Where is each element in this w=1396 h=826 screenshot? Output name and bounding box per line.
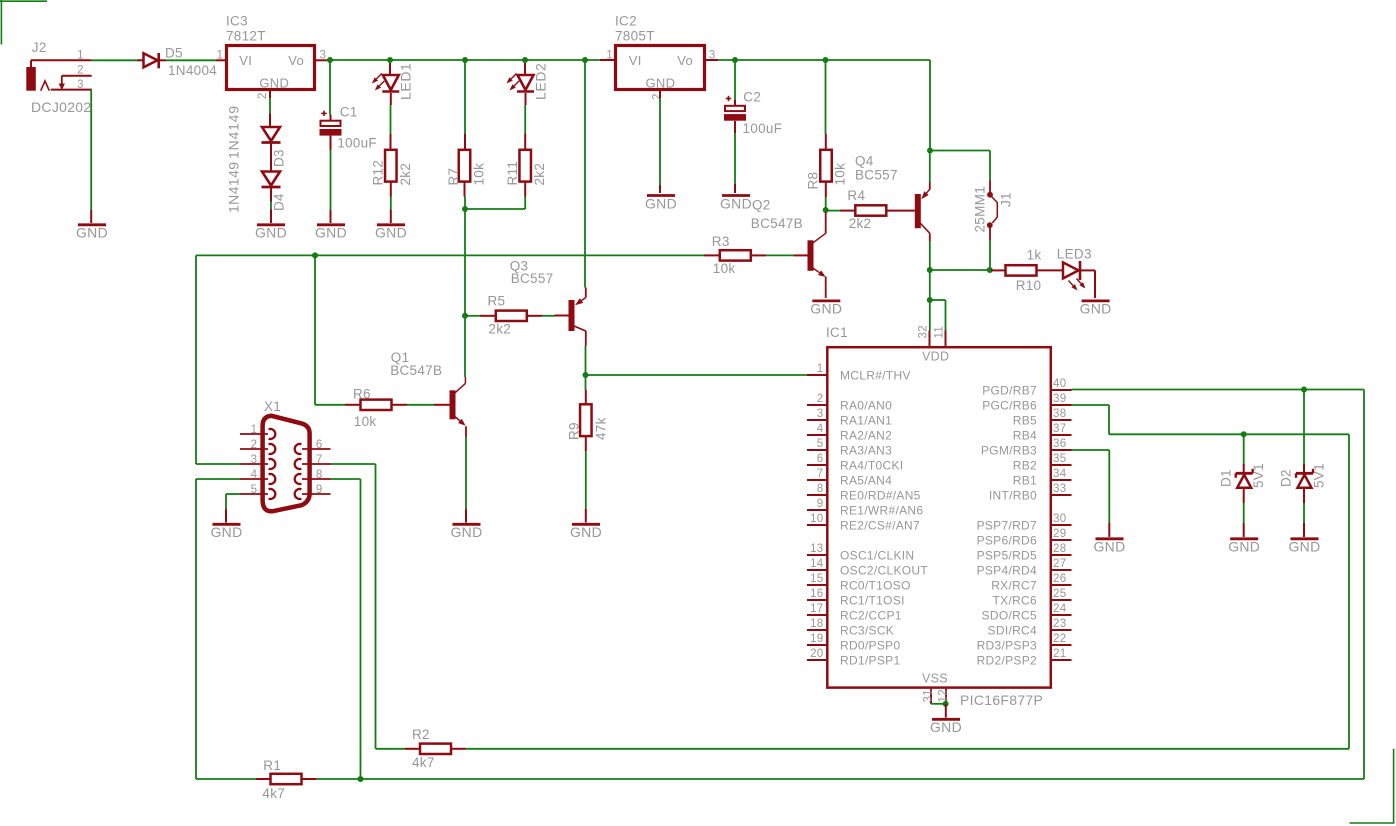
- wire R9 to GND: [585, 436, 587, 522]
- label Q4: [855, 154, 874, 169]
- ground GND (LED3): [1080, 300, 1112, 316]
- diode D3: [262, 114, 281, 158]
- X1 pin 5: [240, 484, 268, 496]
- svg-text:2k2: 2k2: [488, 322, 511, 337]
- label LED1: [398, 63, 414, 100]
- svg-text:14: 14: [810, 558, 824, 570]
- svg-text:IC1: IC1: [826, 325, 848, 340]
- regulator IC3 7812T: [216, 46, 326, 100]
- svg-text:100uF: 100uF: [743, 121, 783, 136]
- svg-text:OSC1/CLKIN: OSC1/CLKIN: [840, 548, 914, 562]
- svg-text:28: 28: [1053, 543, 1066, 555]
- svg-text:GND: GND: [315, 224, 347, 240]
- wire R5 to Q3 base: [527, 315, 569, 317]
- connector X1 DB9: [263, 416, 310, 512]
- label IC1: [826, 325, 848, 340]
- svg-text:RA0/AN0: RA0/AN0: [840, 398, 892, 412]
- svg-text:1: 1: [217, 49, 224, 61]
- svg-text:RA5/AN4: RA5/AN4: [840, 473, 892, 487]
- svg-text:PSP4/RD4: PSP4/RD4: [977, 563, 1037, 577]
- wire junction to R9: [585, 375, 587, 404]
- svg-text:RD1/PSP1: RD1/PSP1: [840, 653, 900, 667]
- IC1 pin 13 OSC1/CLKIN: [807, 543, 914, 562]
- label 7812T: [226, 29, 266, 44]
- svg-text:19: 19: [810, 633, 823, 645]
- IC1 pin 8 RE0/RD#/AN5: [807, 483, 921, 502]
- svg-text:1N4149: 1N4149: [226, 162, 242, 213]
- svg-text:DCJ0202: DCJ0202: [31, 99, 91, 115]
- zener diode D2: [1296, 469, 1313, 488]
- svg-text:OSC2/CLKOUT: OSC2/CLKOUT: [840, 563, 928, 577]
- svg-text:Vo: Vo: [677, 53, 693, 68]
- svg-text:2: 2: [251, 439, 258, 451]
- svg-text:2k2: 2k2: [398, 163, 413, 186]
- svg-text:PGD/RB7: PGD/RB7: [982, 383, 1037, 397]
- resistor R10: [1006, 265, 1037, 275]
- wire IC3 GND to D3: [269, 98, 271, 114]
- label R12: [371, 160, 386, 186]
- label D4: [272, 193, 287, 211]
- label R4: [847, 188, 865, 203]
- svg-text:GND: GND: [259, 75, 289, 90]
- label 4k7 (R2): [412, 755, 435, 770]
- IC1 pin 18 RC3/SCK: [807, 618, 894, 637]
- resistor R5: [496, 311, 527, 321]
- wire D1 to GND: [1243, 488, 1245, 537]
- svg-text:20: 20: [810, 648, 823, 660]
- IC1 pin 24 SDO/RC5: [982, 603, 1072, 622]
- label VSS: [922, 671, 948, 685]
- IC1 pin 25 TX/RC6: [993, 588, 1072, 607]
- node R7-R11 junction: [462, 206, 468, 212]
- svg-text:RB4: RB4: [1013, 428, 1037, 442]
- node D2 junction: [1301, 387, 1307, 393]
- node LED2 junction: [522, 57, 528, 63]
- svg-text:3: 3: [77, 79, 84, 91]
- label 5V1 (D1): [1251, 463, 1266, 488]
- svg-text:Q4: Q4: [855, 154, 874, 169]
- IC1 pin 38 RB5: [1013, 408, 1072, 427]
- label R5: [488, 294, 506, 309]
- capacitor C1: [320, 111, 342, 136]
- svg-text:PIC16F877P: PIC16F877P: [960, 692, 1043, 708]
- svg-text:SDO/RC5: SDO/RC5: [982, 608, 1037, 622]
- X1 pin 6: [302, 439, 331, 451]
- svg-text:Vo: Vo: [288, 53, 304, 68]
- wire LED3 to GND: [1080, 270, 1095, 298]
- svg-text:PGM/RB3: PGM/RB3: [981, 443, 1037, 457]
- IC1 pin 39 PGC/RB6: [982, 393, 1071, 412]
- svg-text:4: 4: [251, 469, 258, 481]
- ground GND (D2): [1288, 538, 1320, 554]
- wire X1 pin5 to GND: [226, 494, 240, 523]
- svg-text:BC557: BC557: [511, 271, 554, 286]
- svg-text:8: 8: [316, 469, 323, 481]
- svg-text:2: 2: [817, 393, 824, 405]
- wire LED1 to R12: [390, 105, 392, 150]
- wire IC2 GND: [659, 98, 661, 193]
- svg-text:38: 38: [1053, 408, 1066, 420]
- label C1: [340, 104, 358, 119]
- label 7805T: [615, 29, 655, 44]
- svg-text:J1: J1: [999, 192, 1014, 207]
- svg-text:R6: R6: [353, 386, 371, 401]
- resistor R12: [385, 150, 397, 182]
- svg-text:4: 4: [817, 423, 824, 435]
- wire R4 to Q4 base: [886, 210, 915, 212]
- J2 pin 3: [51, 79, 92, 91]
- svg-text:PSP7/RD7: PSP7/RD7: [977, 518, 1037, 532]
- svg-text:25MM1: 25MM1: [973, 186, 988, 233]
- svg-text:GND: GND: [1080, 300, 1112, 316]
- resistor R1: [196, 774, 317, 784]
- IC1 pin 29 PSP6/RD6: [977, 528, 1072, 547]
- label IC2: [615, 14, 637, 29]
- svg-text:1: 1: [606, 49, 613, 61]
- label 100uF (C1): [337, 136, 377, 151]
- label 10k (R3): [713, 261, 736, 276]
- wire +5V rail: [706, 60, 930, 150]
- resistor R9: [580, 404, 592, 436]
- IC1 pin 9 RE1/WR#/AN6: [807, 498, 923, 517]
- label Q3: [510, 259, 529, 274]
- svg-text:RA2/AN2: RA2/AN2: [840, 428, 892, 442]
- wire down to VDD: [929, 270, 931, 299]
- IC1 pin 19 RD0/PSP0: [807, 633, 900, 652]
- svg-text:RC1/T1OSI: RC1/T1OSI: [840, 593, 905, 607]
- IC1 pin 14 OSC2/CLKOUT: [807, 558, 928, 577]
- svg-text:GND: GND: [1228, 538, 1260, 554]
- wire C1 to GND: [330, 136, 332, 223]
- svg-text:J2: J2: [32, 40, 47, 55]
- IC1 pin 26 RX/RC7: [991, 573, 1071, 592]
- resistor R6: [361, 400, 392, 410]
- svg-text:9: 9: [817, 498, 824, 510]
- diode D5: [137, 53, 166, 68]
- svg-text:R2: R2: [412, 727, 430, 742]
- wire R8 down: [825, 182, 827, 208]
- label BC547B (Q1): [390, 363, 442, 378]
- svg-text:1: 1: [817, 363, 824, 375]
- ground GND (Q1): [450, 524, 482, 540]
- label 10k (R8): [833, 163, 848, 186]
- IC1 pin 21 RD2/PSP2: [977, 648, 1072, 667]
- wire X1 pin7: [331, 464, 406, 749]
- zener diode D1: [1236, 469, 1253, 488]
- svg-text:RD2/PSP2: RD2/PSP2: [977, 653, 1037, 667]
- resistor R4: [855, 205, 886, 215]
- wire Q3 collector down: [585, 331, 587, 374]
- node VSS junction: [943, 701, 949, 707]
- label Q1: [391, 350, 410, 365]
- svg-text:RB5: RB5: [1013, 413, 1037, 427]
- wire junction to R10: [991, 269, 1006, 271]
- svg-text:10k: 10k: [833, 163, 848, 186]
- svg-text:23: 23: [1053, 618, 1066, 630]
- svg-text:10: 10: [810, 513, 823, 525]
- svg-text:C1: C1: [340, 104, 358, 119]
- svg-text:5V1: 5V1: [1251, 463, 1266, 488]
- label C2: [743, 90, 761, 105]
- IC1 pin 15 RC0/T1OSO: [807, 573, 911, 592]
- svg-text:24: 24: [1053, 603, 1067, 615]
- svg-text:D5: D5: [165, 46, 183, 61]
- wire J1 bottom: [989, 228, 991, 268]
- svg-text:2k2: 2k2: [532, 163, 547, 186]
- IC U1 PIC16F877P box: [827, 347, 1051, 687]
- svg-text:10k: 10k: [713, 261, 736, 276]
- svg-text:LED1: LED1: [398, 63, 414, 100]
- svg-text:VI: VI: [239, 53, 252, 68]
- wire R6 vertical: [315, 255, 360, 404]
- svg-text:C2: C2: [743, 90, 761, 105]
- svg-text:8: 8: [817, 483, 824, 495]
- IC1 pin 27 PSP4/RD4: [977, 558, 1072, 577]
- svg-text:47k: 47k: [594, 417, 609, 440]
- node base-line junction: [312, 252, 318, 258]
- wire Q4 emitter up: [929, 152, 931, 190]
- IC1 pin 17 RC2/CCP1: [807, 603, 902, 622]
- wire IC3 out: [316, 59, 327, 61]
- svg-text:R1: R1: [263, 758, 281, 773]
- wire to J1 top: [930, 151, 990, 193]
- svg-text:37: 37: [1053, 423, 1066, 435]
- svg-text:RA1/AN1: RA1/AN1: [840, 413, 892, 427]
- svg-text:SDI/RC4: SDI/RC4: [988, 623, 1037, 637]
- svg-text:27: 27: [1053, 558, 1066, 570]
- label PIC16F877P: [960, 692, 1043, 708]
- svg-text:R5: R5: [488, 294, 506, 309]
- X1 pin 1: [240, 424, 268, 436]
- wire pin36 to GND: [1072, 450, 1110, 537]
- svg-text:LED2: LED2: [533, 63, 549, 100]
- svg-text:BC557: BC557: [855, 168, 898, 183]
- svg-text:R4: R4: [847, 188, 865, 203]
- label R7: [446, 168, 461, 186]
- ground GND (C2): [720, 195, 752, 211]
- ground GND (IC2): [645, 195, 677, 211]
- node IC3 out junction: [327, 57, 333, 63]
- svg-text:GND: GND: [645, 195, 677, 211]
- label D5: [165, 46, 183, 61]
- frame top-left corner: [0, 0, 47, 45]
- wire +12V rail: [327, 59, 600, 61]
- resistor R7: [459, 150, 471, 182]
- node J1-R10 junction: [987, 267, 993, 273]
- svg-text:31: 31: [923, 689, 935, 702]
- resistor R2: [405, 744, 466, 754]
- svg-text:INT/RB0: INT/RB0: [989, 488, 1037, 502]
- svg-text:3: 3: [251, 454, 258, 466]
- connector J2 (DC jack): [26, 60, 65, 90]
- svg-text:R10: R10: [1016, 278, 1042, 293]
- label 1N4004: [168, 63, 217, 78]
- ground GND (C1): [315, 224, 347, 240]
- svg-text:32: 32: [918, 325, 930, 338]
- svg-text:17: 17: [810, 603, 823, 615]
- svg-text:RE2/CS#/AN7: RE2/CS#/AN7: [840, 518, 920, 532]
- label R8: [806, 172, 821, 190]
- svg-text:RC3/SCK: RC3/SCK: [840, 623, 894, 637]
- node LED1 junction: [387, 57, 393, 63]
- svg-text:1: 1: [251, 424, 258, 436]
- label 1k (R10): [1027, 248, 1042, 263]
- node R8-R4-Q2 junction: [823, 207, 829, 213]
- ground GND (VSS): [930, 719, 962, 735]
- label BC557 (Q3): [511, 271, 554, 286]
- svg-text:GND: GND: [810, 300, 842, 316]
- IC1 pin 35 RB2: [1013, 453, 1072, 472]
- svg-text:3: 3: [817, 408, 824, 420]
- wire VSS down: [945, 704, 947, 718]
- wire rail to R8: [825, 61, 827, 150]
- svg-text:R8: R8: [806, 172, 821, 190]
- LED LED2: [507, 63, 535, 105]
- label DCJ0202: [31, 99, 91, 115]
- node VDD junction: [927, 297, 933, 303]
- svg-text:7: 7: [817, 468, 824, 480]
- wire R12 to GND: [390, 182, 392, 223]
- IC1 pin 22 RD3/PSP3: [977, 633, 1072, 652]
- wire R1 to pin40: [317, 390, 1365, 780]
- ground GND (pin36): [1093, 538, 1125, 554]
- svg-text:1: 1: [77, 49, 84, 61]
- label 1N4149 (D4): [226, 162, 242, 213]
- IC1 pin 6 RA4/T0CKI: [807, 453, 903, 472]
- resistor R8: [820, 150, 832, 182]
- svg-text:10k: 10k: [354, 414, 377, 429]
- wire rail to C1: [329, 61, 332, 121]
- node R8 junction: [823, 57, 829, 63]
- label 2k2 (R4): [849, 216, 872, 231]
- svg-text:11: 11: [934, 326, 946, 339]
- wire rail to C2: [734, 61, 736, 106]
- label 2k2 (R5): [488, 322, 511, 337]
- X1 pin 4: [240, 469, 268, 481]
- label J1: [999, 192, 1014, 207]
- svg-text:18: 18: [810, 618, 823, 630]
- transistor Q4 BC557: [915, 189, 930, 233]
- svg-text:7805T: 7805T: [615, 29, 655, 44]
- label BC547B (Q2): [751, 216, 803, 231]
- label 100uF (C2): [743, 121, 783, 136]
- wire R7 down: [464, 182, 467, 316]
- label IC3: [226, 14, 248, 29]
- ground GND (Q2): [810, 300, 842, 316]
- IC1 pin 2 RA0/AN0: [807, 393, 892, 412]
- label R10: [1016, 278, 1042, 293]
- svg-text:VDD: VDD: [922, 349, 949, 363]
- svg-text:Q2: Q2: [752, 197, 771, 212]
- wire Q1 emitter to GND: [465, 426, 467, 522]
- LED LED1: [372, 63, 400, 105]
- svg-text:5: 5: [251, 484, 258, 496]
- svg-text:RB1: RB1: [1013, 473, 1037, 487]
- svg-text:15: 15: [810, 573, 823, 585]
- frame bottom-right corner: [1350, 749, 1395, 823]
- wire Q4 collector down: [929, 233, 931, 268]
- svg-text:LED3: LED3: [1057, 246, 1092, 261]
- wire Q4-J1 link: [930, 269, 990, 271]
- node Q3 emitter junction: [582, 57, 588, 63]
- svg-text:RE1/WR#/AN6: RE1/WR#/AN6: [840, 503, 923, 517]
- svg-text:22: 22: [1053, 633, 1066, 645]
- wire D4 to GND: [270, 202, 272, 224]
- wire D2 to GND: [1303, 488, 1305, 537]
- label R2: [412, 727, 430, 742]
- svg-text:VSS: VSS: [922, 671, 948, 685]
- IC1 pin 12 VSS: [938, 689, 950, 704]
- svg-text:BC547B: BC547B: [751, 216, 803, 231]
- IC1 pin 11 VDD: [934, 326, 946, 347]
- svg-text:R7: R7: [446, 168, 461, 186]
- svg-text:IC2: IC2: [615, 14, 637, 29]
- svg-text:RD3/PSP3: RD3/PSP3: [977, 638, 1037, 652]
- label R3: [712, 234, 730, 249]
- wire R2 to pin39: [466, 405, 1349, 749]
- svg-text:RE0/RD#/AN5: RE0/RD#/AN5: [840, 488, 921, 502]
- svg-text:RC0/T1OSO: RC0/T1OSO: [840, 578, 911, 592]
- wire rail to R7: [464, 61, 466, 150]
- label 5V1 (D2): [1312, 463, 1327, 488]
- X1 pin 8: [302, 469, 331, 481]
- svg-text:TX/RC6: TX/RC6: [993, 593, 1038, 607]
- node R7 junction: [462, 57, 468, 63]
- svg-text:30: 30: [1053, 513, 1066, 525]
- svg-text:7: 7: [316, 454, 323, 466]
- label R6: [353, 386, 371, 401]
- svg-text:RB2: RB2: [1013, 458, 1037, 472]
- IC1 pin 28 PSP5/RD5: [977, 543, 1072, 562]
- wire rail to Q3 emitter: [584, 61, 586, 288]
- wire Q2 emitter to GND: [825, 277, 827, 299]
- node D1 junction: [1241, 431, 1247, 437]
- wire rail to IC2: [600, 59, 614, 61]
- svg-text:GND: GND: [210, 524, 242, 540]
- IC1 pin 34 RB1: [1013, 468, 1072, 487]
- IC1 pin 16 RC1/T1OSI: [807, 588, 905, 607]
- label D3: [272, 149, 287, 167]
- svg-text:35: 35: [1053, 453, 1066, 465]
- svg-text:GND: GND: [1093, 538, 1125, 554]
- label BC557 (Q4): [855, 168, 898, 183]
- svg-text:16: 16: [810, 588, 823, 600]
- wire R6 to Q1 base: [392, 404, 450, 406]
- node Q3-R9-MCLR junction: [583, 372, 589, 378]
- diode D4: [262, 158, 281, 202]
- ground GND (R9): [570, 524, 602, 540]
- node Q4 emitter junction: [927, 148, 933, 154]
- J2 pin 2: [62, 64, 92, 76]
- svg-text:RX/RC7: RX/RC7: [991, 578, 1037, 592]
- svg-text:GND: GND: [570, 524, 602, 540]
- svg-text:100uF: 100uF: [337, 136, 377, 151]
- IC1 pin 7 RA5/AN4: [807, 468, 892, 487]
- IC1 pin 40 PGD/RB7: [982, 378, 1071, 397]
- label 47k (R9): [594, 417, 609, 440]
- svg-text:5V1: 5V1: [1312, 463, 1327, 488]
- label 25MM1 (J1): [973, 186, 988, 233]
- IC1 pin 3 RA1/AN1: [807, 408, 892, 427]
- wire X1 pin8: [331, 479, 361, 779]
- svg-text:10k: 10k: [472, 163, 487, 186]
- svg-text:R11: R11: [505, 161, 520, 186]
- svg-text:GND: GND: [646, 75, 676, 90]
- X1 pin 2: [240, 439, 268, 451]
- label 10k (R7): [472, 163, 487, 186]
- svg-text:D1: D1: [1219, 469, 1234, 487]
- IC1 pin 36 PGM/RB3: [981, 438, 1072, 457]
